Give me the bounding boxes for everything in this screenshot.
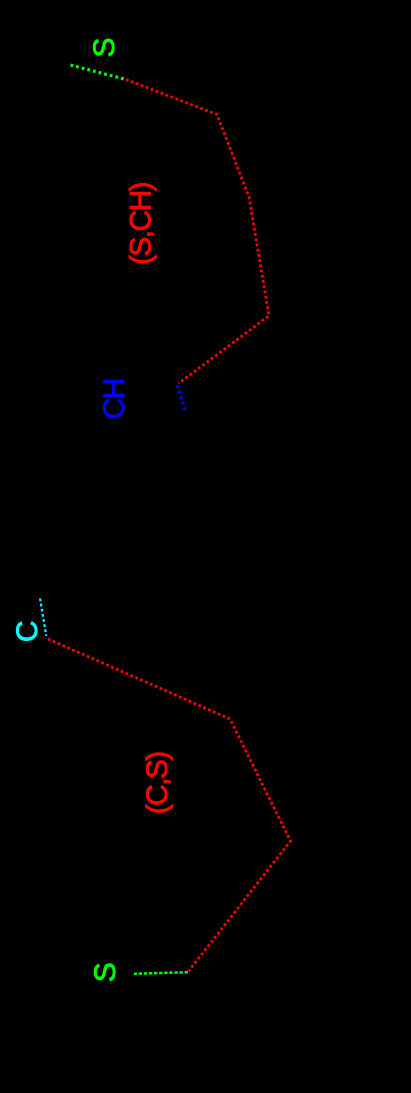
curve 2: S segment (green dotted)	[134, 972, 188, 974]
svg-text:S: S	[89, 962, 122, 982]
curve 2: (C,S) path (red dotted)	[48, 639, 291, 971]
curve 1: (S,CH) path (red dotted)	[126, 80, 269, 384]
curve 2: C segment (cyan dotted)	[40, 599, 46, 637]
svg-text:S: S	[88, 37, 121, 57]
curve 1: S segment (green dotted)	[71, 65, 127, 80]
svg-text:C: C	[11, 620, 44, 642]
svg-text:(C,S): (C,S)	[141, 752, 174, 815]
svg-text:(S,CH): (S,CH)	[125, 182, 158, 265]
curve 1: CH segment (blue dotted)	[177, 385, 185, 410]
svg-text:CH: CH	[98, 379, 131, 419]
